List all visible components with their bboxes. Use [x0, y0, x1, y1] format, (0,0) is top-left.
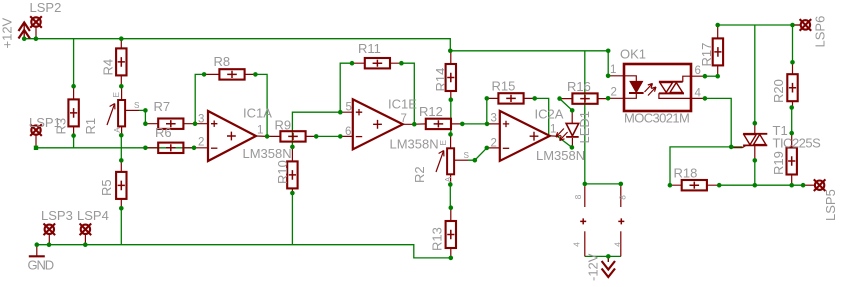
pad LSP5	[803, 179, 825, 191]
svg-text:4: 4	[613, 242, 622, 247]
junction (352,63.2)	[350, 61, 355, 66]
pad LSP4	[80, 224, 92, 245]
wire T1 MT1 to output row	[754, 160, 756, 185]
svg-text:OK1: OK1	[620, 47, 646, 62]
junction (486.8,98.4)	[485, 96, 490, 101]
wire R11 right to pin7	[401, 63, 414, 124]
supply -12V arrow	[602, 256, 615, 277]
wire end LSP1 node	[34, 146, 38, 150]
resistor R15	[487, 93, 535, 103]
junction (474.8,160.2)	[473, 158, 478, 163]
svg-text:R12: R12	[419, 104, 443, 119]
junction (450.3,184.5)	[448, 182, 453, 187]
junction (571.9,147.4)	[570, 145, 575, 150]
svg-text:MOC3021M: MOC3021M	[624, 111, 689, 126]
svg-text:1: 1	[257, 124, 263, 136]
junction (145.4,147.8)	[143, 146, 148, 151]
pad LSP3	[44, 224, 56, 245]
optocoupler OK1	[608, 64, 705, 111]
svg-text:4: 4	[572, 242, 581, 247]
junction (85.3,244.7)	[83, 242, 88, 247]
svg-text:8: 8	[619, 195, 628, 200]
junction (340.3,136.4)	[338, 134, 343, 139]
junction (121.3,208.3)	[119, 206, 124, 211]
junction (719.2,185.2)	[717, 183, 722, 188]
svg-text:LSP6: LSP6	[813, 16, 828, 48]
resistor R16	[560, 93, 609, 103]
junction (608.2,50.8)	[606, 49, 611, 54]
junction (754.8,185.2)	[753, 183, 758, 188]
resistor R12	[414, 119, 462, 129]
junction (121.3,86.3)	[119, 84, 124, 89]
junction (791.7,133.1)	[789, 131, 794, 136]
svg-text:R9: R9	[275, 118, 292, 133]
junction (572.2,110.4)	[570, 108, 575, 113]
svg-text:R3: R3	[54, 118, 69, 135]
junction (717.7,25)	[715, 23, 720, 28]
svg-text:6: 6	[345, 126, 351, 138]
svg-text:A: A	[444, 176, 453, 182]
junction (24.2,38.7)	[22, 36, 27, 41]
junction (731.2,146.9)	[729, 145, 734, 150]
trimmer R1	[107, 86, 139, 135]
svg-text:R13: R13	[430, 227, 445, 251]
svg-text:-12V: -12V	[586, 253, 601, 281]
wire T1 MT2 column	[754, 25, 756, 123]
junction (792.5,25)	[790, 23, 795, 28]
resistor R8	[204, 69, 255, 79]
wire R16 left diagonal to LED1 anode	[560, 99, 573, 111]
svg-text:+12V: +12V	[0, 17, 15, 48]
wire R15 right to IC2A output	[535, 98, 549, 135]
junction (204.1,74.4)	[202, 72, 207, 77]
wire pot R1 wiper to R7	[139, 110, 145, 123]
junction (754.8,123.2)	[753, 121, 758, 126]
junction (450.8,207.7)	[449, 205, 454, 210]
junction (49,244.7)	[47, 242, 52, 247]
junction (704.9,98.4)	[703, 96, 708, 101]
svg-text:LSP3: LSP3	[41, 208, 73, 223]
svg-text:LM358N: LM358N	[243, 146, 292, 161]
junction (145.4,123.7)	[143, 121, 148, 126]
resistor R4	[116, 39, 126, 87]
svg-text:5: 5	[346, 102, 352, 114]
junction (486.8,147.9)	[485, 146, 490, 151]
junction (754.8,160.4)	[753, 158, 758, 163]
svg-text:8: 8	[574, 194, 583, 199]
junction (791.7,185.2)	[789, 183, 794, 188]
wire main input row	[36, 147, 194, 149]
junction (292.4,193)	[290, 191, 295, 196]
junction (195,123.7)	[193, 121, 198, 126]
resistor R18	[670, 180, 719, 190]
op-amp IC2A	[487, 111, 557, 161]
svg-text:1: 1	[550, 124, 556, 136]
wire OK1 pin6 to R17	[705, 75, 718, 77]
junction (414.3,124.2)	[412, 122, 417, 127]
svg-text:R19: R19	[771, 151, 786, 175]
op-amp power pins IC1P	[580, 186, 586, 256]
junction (450.8,257.9)	[449, 256, 454, 261]
svg-text:E: E	[439, 140, 448, 146]
junction (791.7,107.5)	[789, 105, 794, 110]
svg-text:IC2A: IC2A	[535, 107, 564, 122]
supply +12V arrow	[19, 23, 30, 39]
svg-text:R7: R7	[154, 99, 171, 114]
junction (584.8,183.9)	[583, 182, 588, 187]
svg-text:TIC225S: TIC225S	[773, 136, 822, 151]
junction (559.6,98.6)	[557, 96, 562, 101]
junction (401.4,63.2)	[399, 61, 404, 66]
junction (73.6,86.2)	[71, 84, 76, 89]
triac T1	[731, 123, 767, 160]
svg-text:3: 3	[198, 114, 204, 126]
pad LSP1	[30, 124, 42, 148]
wire R8 right to IC1A output	[255, 74, 267, 136]
junction (121.3,135.3)	[119, 133, 124, 138]
junction (608.3,256.4)	[606, 254, 611, 259]
wire OK1 pin4 to T1 gate and R18	[670, 98, 742, 185]
junction (608.1,75.8)	[606, 74, 611, 79]
resistor R19	[787, 133, 797, 185]
wire R9 right to pin6	[316, 135, 340, 137]
svg-text:2: 2	[198, 137, 204, 149]
resistor R14	[446, 51, 456, 100]
resistor R17	[713, 25, 723, 76]
svg-text:R15: R15	[492, 79, 516, 94]
junction (121.3,38.7)	[119, 36, 124, 41]
svg-text:R8: R8	[214, 54, 231, 69]
svg-text:3: 3	[491, 112, 497, 124]
resistor R10	[287, 147, 297, 193]
wire +12V rail	[24, 39, 608, 76]
svg-text:R4: R4	[101, 59, 116, 76]
svg-text:LM358N: LM358N	[536, 148, 585, 163]
svg-text:LSP5: LSP5	[823, 189, 838, 221]
svg-text:A: A	[113, 127, 122, 133]
wire R3 column from rail	[73, 39, 75, 148]
svg-text:IC1E: IC1E	[388, 97, 417, 112]
junction (534.7,98.4)	[532, 96, 537, 101]
svg-text:7: 7	[401, 113, 407, 125]
op-amp power pins IC2P	[618, 186, 624, 256]
svg-text:R20: R20	[771, 79, 786, 103]
junction (121.3,160.4)	[119, 158, 124, 163]
junction (194,147.8)	[192, 146, 197, 151]
junction (450.3,50.8)	[448, 49, 453, 54]
junction (73.6,135.6)	[71, 133, 76, 138]
junction (450.8,99.7)	[449, 97, 454, 102]
junction (487,123.9)	[485, 122, 490, 127]
junction (35.9,38.7)	[34, 36, 39, 41]
svg-text:GND: GND	[28, 258, 54, 273]
junction (717.7,76.2)	[715, 74, 720, 79]
svg-text:2: 2	[491, 138, 497, 150]
junction (792.5,62.3)	[790, 60, 795, 65]
op-amp IC1E	[340, 99, 414, 149]
svg-text:R1: R1	[83, 118, 98, 135]
junction (292.4,146.9)	[290, 145, 295, 150]
svg-text:R16: R16	[567, 79, 591, 94]
wire R12 to pin3 IC2A	[462, 123, 487, 125]
wire R8 left to pin3	[195, 74, 204, 123]
junction (620.8,183.9)	[619, 182, 624, 187]
svg-text:LSP4: LSP4	[77, 208, 109, 223]
pad LSP6	[794, 19, 811, 31]
junction (462.3,123.9)	[460, 122, 465, 127]
svg-text:R11: R11	[358, 41, 381, 56]
svg-text:1: 1	[610, 64, 616, 76]
wire R11 left to pin5	[340, 63, 352, 112]
svg-text:R17: R17	[699, 43, 714, 67]
wire R20 to R19	[791, 108, 793, 134]
junction (704.9,76.2)	[703, 74, 708, 79]
wire R14 bottom to pot R2 E	[450, 100, 452, 135]
wire top right rail	[718, 24, 800, 26]
wire R10 bottom to ground rail	[291, 193, 293, 245]
resistor R13	[446, 208, 456, 258]
svg-text:R14: R14	[433, 68, 448, 92]
wire pot R1 A to R5	[120, 135, 122, 160]
LED LED1	[556, 110, 579, 147]
ground symbol	[29, 245, 45, 257]
junction (608.1,98.3)	[606, 96, 611, 101]
wire pot R2 A to R13	[449, 185, 451, 208]
resistor R11	[352, 58, 401, 68]
junction (267.1,136.4)	[265, 134, 270, 139]
svg-text:R10: R10	[275, 160, 290, 184]
wire IC2A output diagonal to LED1 cathode	[557, 136, 572, 147]
svg-text:E: E	[112, 92, 121, 98]
op-amp IC1A	[195, 111, 267, 161]
wire +12V to op-amp V+ pins	[585, 51, 621, 184]
wire R5 to ground rail	[120, 208, 122, 244]
resistor R20	[787, 62, 797, 107]
wire -12V row	[585, 255, 621, 257]
svg-text:4: 4	[695, 88, 702, 100]
svg-text:LM358N: LM358N	[390, 137, 439, 152]
svg-text:2: 2	[611, 87, 617, 99]
pad LSP2	[30, 16, 42, 39]
resistor R3	[68, 86, 78, 135]
wire R18 output row to LSP5	[719, 184, 803, 186]
resistor R6	[145, 143, 194, 153]
wire R10 top to pin5 node	[292, 112, 340, 147]
svg-text:R18: R18	[674, 166, 698, 181]
junction (145.4,110.4)	[143, 108, 148, 113]
svg-text:S: S	[464, 151, 470, 160]
junction (340.3,112.2)	[338, 110, 343, 115]
svg-text:R6: R6	[155, 125, 172, 140]
svg-text:IC1A: IC1A	[243, 106, 272, 121]
resistor R5	[116, 160, 126, 208]
wire pot R2 wiper diagonal to pin2	[468, 148, 487, 160]
svg-text:LSP2: LSP2	[30, 0, 62, 15]
svg-text:R5: R5	[99, 179, 114, 196]
junction (803.1,185.2)	[801, 183, 806, 188]
wire R20 top	[792, 25, 794, 62]
resistor R7	[145, 119, 195, 129]
svg-text:S: S	[134, 101, 140, 110]
trimmer R2	[436, 134, 468, 184]
junction (316.2,136.4)	[314, 134, 319, 139]
junction (36.8,244.7)	[35, 242, 40, 247]
svg-text:R2: R2	[412, 166, 427, 183]
junction (255.4,74.4)	[253, 72, 258, 77]
svg-text:LED1: LED1	[577, 111, 592, 144]
junction (450.5,134.4)	[448, 132, 453, 137]
wire ground rail	[37, 245, 451, 258]
wire R15 left to pin3 node	[486, 98, 488, 124]
junction (669.9,185.2)	[668, 183, 673, 188]
resistor R9	[267, 131, 316, 141]
